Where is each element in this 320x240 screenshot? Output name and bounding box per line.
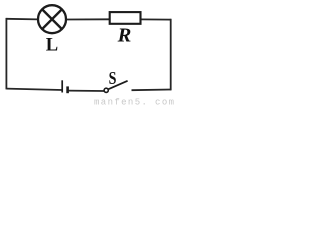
svg-text:S: S [109, 68, 117, 88]
svg-text:manfen5. com: manfen5. com [94, 98, 174, 107]
svg-text:R: R [117, 24, 132, 46]
svg-text:L: L [46, 34, 58, 55]
